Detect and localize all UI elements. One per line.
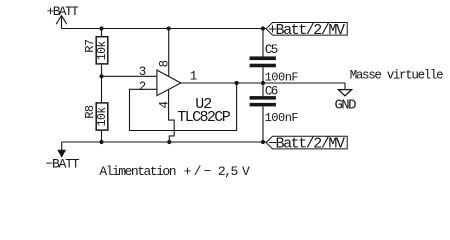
wire down to GND [344,83,346,90]
svg-text:4: 4 [158,101,172,109]
wire R7 bottom lead [101,64,103,76]
wire R8 bottom lead [101,130,103,142]
svg-text:10k: 10k [96,41,109,61]
wire bottom -BATT rail [62,141,267,143]
node pin4 / -BATT rail junction [167,140,171,144]
node junction C5 / +Batt flag [261,26,265,30]
svg-text:C6: C6 [265,85,278,99]
pin 2 wire and feedback loop [130,83,237,131]
-BATT supply arrow [57,150,66,158]
svg-text:V: V [242,164,250,179]
svg-text:GND: GND [335,97,357,113]
capacitor C5 bottom lead [262,67,264,83]
node junction op-amp pin8 [167,26,171,30]
svg-text:R8: R8 [83,105,97,119]
resistor R8 [96,103,108,130]
net flag +Batt/2/MV [266,23,347,36]
capacitor C6 plates [250,96,276,100]
node R8 bottom junction [99,140,103,144]
pin 8 wire [168,29,170,77]
node C6 bottom junction [261,140,265,144]
svg-text:+Batt/2/MV: +Batt/2/MV [268,22,345,39]
svg-text:2,5: 2,5 [218,164,238,179]
output wire pin 1 / virtual ground rail [181,82,345,84]
ground symbol GND [338,90,351,96]
op-amp U2 triangle [157,70,181,96]
wire R8 top lead [101,76,103,103]
svg-text:Alimentation: Alimentation [99,164,175,179]
svg-text:3: 3 [139,65,147,79]
capacitor C5 plates [250,56,276,60]
net flag -Batt/2/MV [266,136,347,149]
svg-text:−BATT: −BATT [45,156,79,171]
capacitor C6 bottom lead [262,106,264,142]
capacitor C6 top lead [262,83,264,96]
pin 4 wire [169,89,175,142]
svg-text:2: 2 [139,80,147,94]
svg-text:Masse virtuelle: Masse virtuelle [350,68,443,82]
capacitor C5 top lead [262,29,264,57]
svg-text:100nF: 100nF [265,111,299,125]
svg-text:100nF: 100nF [265,71,299,85]
wire -BATT stem [61,142,63,150]
node junction R7 top [99,26,103,30]
svg-text:10k: 10k [96,107,109,127]
svg-text:8: 8 [158,60,172,68]
svg-text:−Batt/2/MV: −Batt/2/MV [268,136,345,153]
svg-text:1: 1 [190,69,198,83]
wire to op-amp pin 3 [102,75,158,77]
svg-text:R7: R7 [83,39,97,53]
node R7/R8/pin3 junction [99,74,103,78]
resistor R7 [96,37,108,64]
wire top +BATT rail [62,28,267,30]
node output/C5-C6 junction [261,81,265,85]
node output/feedback junction [235,81,239,85]
wire R7 top lead [101,29,103,38]
svg-text:+BATT: +BATT [47,4,79,19]
svg-text:TLC82CP: TLC82CP [177,109,230,126]
svg-text:C5: C5 [265,43,278,57]
+BATT supply arrow [56,16,67,29]
svg-text:+/−: +/− [184,164,214,179]
